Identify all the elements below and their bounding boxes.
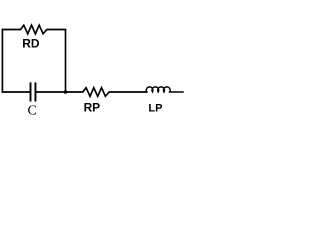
svg-text:LP: LP (148, 103, 162, 115)
svg-text:RD: RD (22, 37, 40, 51)
svg-text:C: C (28, 104, 37, 119)
svg-text:RP: RP (84, 100, 101, 114)
